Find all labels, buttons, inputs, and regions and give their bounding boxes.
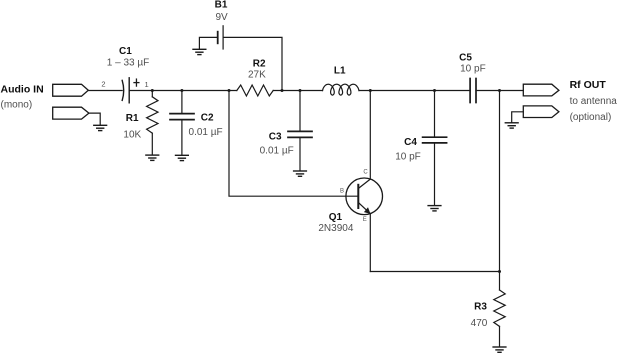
svg-text:2N3904: 2N3904 bbox=[318, 223, 353, 234]
svg-text:B: B bbox=[340, 189, 344, 195]
svg-text:Q1: Q1 bbox=[329, 212, 343, 223]
wire emitter to R3 node bbox=[370, 271, 499, 273]
wire C4 top stem bbox=[434, 91, 436, 137]
svg-text:E: E bbox=[363, 217, 367, 223]
wire C3 top stem bbox=[299, 91, 301, 131]
connector J1 Audio IN signal bbox=[53, 84, 89, 96]
ground C3 bbox=[294, 171, 307, 176]
inductor L1 coil bbox=[323, 84, 360, 95]
C1 plus sign bbox=[134, 79, 139, 86]
wire Q1 collector to rail bbox=[369, 91, 371, 180]
svg-text:C: C bbox=[363, 170, 368, 176]
battery B1 rail left bbox=[199, 37, 217, 49]
wire C3 bottom stem bbox=[299, 138, 301, 170]
node feedback junction bbox=[228, 89, 231, 92]
capacitor C5 plates bbox=[470, 79, 476, 103]
svg-text:to antenna: to antenna bbox=[570, 96, 618, 107]
svg-text:10 pF: 10 pF bbox=[395, 152, 421, 163]
ground Rf OUT bbox=[505, 123, 518, 128]
node B1 junction bbox=[281, 89, 284, 92]
resistor R2 zigzag bbox=[237, 85, 273, 96]
transistor Q1 base bar bbox=[357, 185, 359, 208]
svg-text:(mono): (mono) bbox=[1, 99, 33, 110]
svg-text:R1: R1 bbox=[126, 113, 139, 124]
transistor Q1 circle bbox=[346, 178, 383, 215]
connector J1 Audio IN ground bbox=[53, 107, 89, 119]
svg-text:0.01 µF: 0.01 µF bbox=[189, 127, 223, 138]
svg-text:470: 470 bbox=[471, 318, 488, 329]
svg-text:10 pF: 10 pF bbox=[460, 63, 486, 74]
wire R3 top stem bbox=[499, 272, 501, 291]
svg-text:C4: C4 bbox=[404, 137, 417, 148]
svg-text:R2: R2 bbox=[253, 59, 266, 70]
svg-text:10K: 10K bbox=[123, 129, 141, 140]
ground C4 bbox=[428, 206, 441, 211]
svg-text:Audio IN: Audio IN bbox=[1, 84, 44, 96]
wire Rf ground lead bbox=[512, 112, 524, 123]
node C3 junction bbox=[299, 89, 302, 92]
svg-text:L1: L1 bbox=[334, 66, 346, 77]
svg-text:1 – 33 µF: 1 – 33 µF bbox=[107, 57, 149, 68]
battery B1 negative plate bbox=[217, 32, 219, 44]
node emitter R3 junction bbox=[498, 270, 501, 273]
resistor R3 zigzag bbox=[494, 290, 505, 326]
svg-text:Rf OUT: Rf OUT bbox=[570, 79, 607, 91]
svg-text:B1: B1 bbox=[215, 0, 228, 11]
transistor Q1 emitter arrowhead bbox=[364, 207, 371, 214]
svg-text:C5: C5 bbox=[459, 53, 472, 64]
wire feedback from node to Q1 base bbox=[229, 91, 358, 197]
capacitor C1 negative curved plate bbox=[122, 80, 124, 100]
transistor Q1 collector diagonal bbox=[358, 179, 370, 188]
battery B1 positive plate bbox=[222, 26, 224, 49]
capacitor C1 positive plate bbox=[128, 78, 130, 103]
svg-text:C3: C3 bbox=[269, 131, 282, 142]
node C2 junction bbox=[180, 89, 183, 92]
wire R1 top stem bbox=[151, 91, 153, 97]
connector J2 Rf OUT ground bbox=[523, 106, 559, 118]
svg-text:C1: C1 bbox=[119, 46, 132, 57]
svg-text:0.01 µF: 0.01 µF bbox=[260, 146, 294, 157]
svg-text:9V: 9V bbox=[215, 12, 228, 23]
node C4 junction bbox=[433, 89, 436, 92]
svg-text:27K: 27K bbox=[248, 70, 266, 81]
svg-text:2: 2 bbox=[101, 80, 105, 89]
ground R1 bbox=[146, 155, 159, 160]
wire R3 bottom stem bbox=[499, 326, 501, 346]
node C5 output junction bbox=[498, 89, 501, 92]
capacitor C2 plates bbox=[170, 114, 194, 120]
capacitor C3 plates bbox=[288, 131, 312, 137]
connector J2 Rf OUT signal bbox=[523, 84, 559, 96]
ground B1 bbox=[193, 49, 206, 54]
wire main rail input segment bbox=[88, 90, 122, 92]
ground C2 bbox=[176, 155, 189, 160]
svg-text:(optional): (optional) bbox=[570, 112, 612, 123]
wire C2 bottom stem bbox=[181, 121, 183, 156]
wire main rail C5 to Rf OUT connector bbox=[476, 90, 523, 92]
wire B1 positive to rail bbox=[223, 37, 282, 90]
svg-text:C2: C2 bbox=[201, 113, 214, 124]
wire C5 node down to R3 node bbox=[499, 91, 501, 272]
wire main rail C1 to R2 bbox=[129, 90, 237, 92]
svg-text:R3: R3 bbox=[474, 301, 487, 312]
wire Q1 emitter down bbox=[369, 214, 371, 272]
wire R1 bottom stem bbox=[151, 133, 153, 155]
wire audio ground lead bbox=[89, 113, 100, 125]
wire C2 top stem bbox=[181, 91, 183, 113]
wire C4 bottom stem bbox=[434, 144, 436, 206]
wire main rail L1 to C5 bbox=[359, 90, 470, 92]
ground audio input bbox=[94, 125, 107, 130]
svg-text:1: 1 bbox=[145, 80, 149, 89]
node collector junction bbox=[369, 89, 372, 92]
transistor Q1 emitter diagonal bbox=[358, 203, 370, 214]
capacitor C4 plates bbox=[423, 137, 447, 143]
node R1 junction bbox=[151, 89, 154, 92]
wire main rail R2 to L1 bbox=[273, 90, 322, 92]
resistor R1 zigzag bbox=[147, 97, 158, 133]
ground R3 bbox=[493, 347, 506, 352]
